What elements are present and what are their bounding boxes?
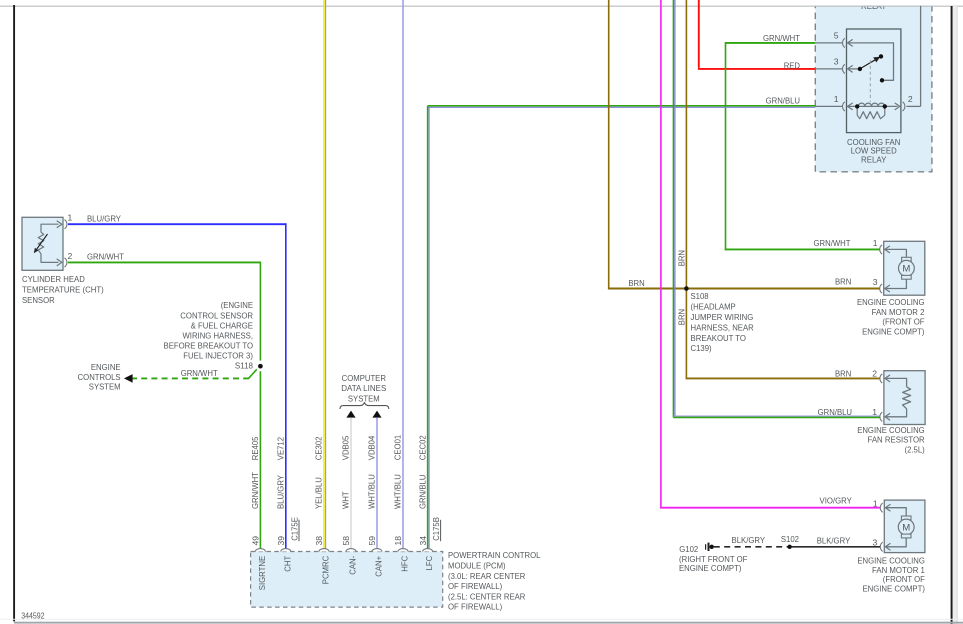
PCM pin 38 PCMRC [319, 549, 329, 552]
brace [340, 402, 389, 409]
svg-text:GRN/BLU: GRN/BLU [818, 407, 852, 417]
svg-text:VDB04: VDB04 [367, 436, 377, 461]
CHT sensor box [22, 217, 63, 270]
svg-text:WIRING HARNESS,: WIRING HARNESS, [183, 331, 254, 341]
svg-text:ENGINE COMPT): ENGINE COMPT) [863, 584, 926, 594]
PCM pin 49 SIGRTNE [255, 549, 265, 552]
svg-text:CYLINDER HEAD: CYLINDER HEAD [22, 274, 85, 284]
ground G102 symbol [705, 544, 707, 549]
svg-text:C175B: C175B [431, 517, 441, 541]
wire YEL/BLU CE302 [323, 0, 325, 548]
svg-text:RED: RED [784, 60, 800, 70]
svg-text:LFC: LFC [424, 556, 434, 571]
svg-text:34: 34 [418, 536, 428, 546]
svg-text:SYSTEM: SYSTEM [348, 393, 380, 403]
relay coil and resistor [848, 105, 898, 107]
white mask above page border [0, 0, 963, 6]
page top border [0, 5, 963, 7]
svg-text:GRN/WHT: GRN/WHT [87, 252, 125, 262]
svg-text:VE712: VE712 [276, 437, 286, 460]
PCM pin 58 CAN- [346, 549, 356, 552]
fan resistor pin 1 [880, 412, 882, 421]
svg-text:VDB05: VDB05 [341, 436, 351, 461]
svg-text:RE405: RE405 [250, 436, 260, 460]
svg-text:& FUEL CHARGE: & FUEL CHARGE [191, 320, 254, 330]
PCM pin 39 CHT [281, 549, 291, 552]
svg-text:1: 1 [68, 213, 73, 223]
arrow up CAN+ [372, 411, 381, 418]
motor M2 symbol [885, 249, 906, 257]
svg-text:(HEADLAMP: (HEADLAMP [691, 302, 736, 312]
relay switch blade [862, 58, 878, 68]
svg-text:S102: S102 [781, 534, 799, 544]
fan motor 2 pin 3 [880, 284, 882, 293]
svg-text:39: 39 [276, 536, 286, 546]
wire GRN/BLU to resistor pin 1 [672, 0, 674, 417]
svg-text:C139): C139) [691, 343, 712, 353]
fan motor 2 box [884, 241, 925, 295]
svg-text:ENGINE COOLING: ENGINE COOLING [857, 425, 925, 435]
svg-text:TEMPERATURE (CHT): TEMPERATURE (CHT) [22, 285, 104, 295]
svg-text:S118: S118 [235, 360, 253, 370]
svg-text:CHT: CHT [282, 555, 292, 572]
svg-text:(ENGINE: (ENGINE [221, 300, 254, 310]
svg-text:SENSOR: SENSOR [22, 295, 55, 305]
svg-text:1: 1 [873, 498, 878, 508]
fan motor 1 pin 1 [880, 503, 882, 512]
CHT pin 1 [65, 220, 67, 229]
svg-text:BLU/GRY: BLU/GRY [276, 475, 286, 509]
svg-text:DATA LINES: DATA LINES [341, 383, 386, 393]
splice S108 dot [684, 286, 689, 291]
svg-text:GRN/WHT: GRN/WHT [814, 238, 852, 248]
svg-text:CEC02: CEC02 [417, 435, 427, 460]
relay actuator dashed link [869, 60, 871, 102]
svg-text:BRN: BRN [835, 276, 851, 286]
motor M1 symbol [886, 508, 907, 516]
svg-text:BREAKOUT TO: BREAKOUT TO [691, 333, 747, 343]
svg-text:344592: 344592 [21, 612, 44, 621]
svg-text:HARNESS, NEAR: HARNESS, NEAR [691, 322, 754, 332]
svg-text:SYSTEM: SYSTEM [89, 382, 121, 392]
thermistor inside CHT sensor [41, 224, 59, 232]
svg-text:GRN/WHT: GRN/WHT [763, 33, 801, 43]
PCM pin 34 LFC [423, 549, 433, 552]
svg-text:JUMPER WIRING: JUMPER WIRING [691, 312, 754, 322]
svg-text:GRN/BLU: GRN/BLU [766, 96, 800, 106]
svg-text:BLK/GRY: BLK/GRY [732, 535, 766, 545]
svg-text:HFC: HFC [400, 556, 410, 572]
relay pin 1 [815, 105, 843, 107]
svg-text:38: 38 [314, 536, 324, 546]
svg-text:C175E: C175E [289, 517, 299, 541]
svg-text:(2.5L: CENTER REAR: (2.5L: CENTER REAR [448, 591, 525, 601]
fan motor 1 box [884, 500, 925, 552]
page right border [951, 6, 953, 624]
svg-text:CE302: CE302 [314, 436, 324, 460]
dashed GRN/WHT branch to engine controls [131, 377, 249, 379]
wire GRN/WHT RE405 [68, 261, 261, 263]
wire GRN/WHT relay pin5 to fan motor 2 [726, 42, 816, 44]
svg-text:BRN: BRN [676, 309, 686, 325]
wire WHT/BLU CEO01 [402, 0, 404, 548]
svg-text:VIO/GRY: VIO/GRY [820, 495, 853, 505]
svg-text:POWERTRAIN CONTROL: POWERTRAIN CONTROL [448, 550, 541, 560]
svg-text:BLK/GRY: BLK/GRY [817, 535, 851, 545]
svg-text:CONTROLS: CONTROLS [78, 372, 121, 382]
svg-text:1: 1 [872, 407, 877, 417]
splice S102 dot [787, 545, 791, 549]
svg-text:OF FIREWALL): OF FIREWALL) [448, 602, 502, 612]
fan motor 1 pin 3 [880, 542, 882, 551]
svg-text:18: 18 [393, 536, 403, 546]
ground G102 dot [710, 545, 714, 549]
wire BRN S108 to resistor pin 2 [686, 377, 880, 379]
relay pin 5 [815, 42, 843, 44]
wire BRN S108 to fan motor 2 pin 3 [686, 288, 880, 290]
svg-text:BRN: BRN [628, 278, 644, 288]
svg-text:FAN MOTOR 2: FAN MOTOR 2 [872, 307, 925, 317]
PCM pin 59 CAN+ [372, 549, 382, 552]
svg-text:2: 2 [908, 94, 913, 104]
wire WHT VDB05 [350, 418, 352, 549]
wire WHT/BLU VDB04 [376, 418, 378, 549]
svg-text:WHT/BLU: WHT/BLU [393, 474, 403, 509]
svg-text:2: 2 [872, 368, 877, 378]
svg-text:CEO01: CEO01 [393, 435, 403, 461]
svg-text:FAN RESISTOR: FAN RESISTOR [868, 435, 925, 445]
page left border [13, 5, 15, 621]
svg-text:G102: G102 [679, 544, 698, 554]
svg-text:1: 1 [873, 238, 878, 248]
fan resistor pin 2 [880, 374, 882, 383]
wire VIO/GRY to motor1 pin 1 [660, 0, 662, 508]
relay pin 3 [815, 68, 843, 70]
svg-text:CAN-: CAN- [348, 556, 358, 575]
wire GRN/BLU CEC02 relay pin1 to PCM 34 [428, 105, 816, 107]
svg-text:ENGINE COOLING: ENGINE COOLING [857, 297, 925, 307]
svg-text:CONTROL SENSOR: CONTROL SENSOR [180, 310, 253, 320]
svg-text:FUEL INJECTOR 3): FUEL INJECTOR 3) [183, 351, 253, 361]
resistor element [885, 378, 906, 387]
svg-text:ENGINE COMPT): ENGINE COMPT) [862, 326, 925, 336]
wire BLK/GRY dashed G102 to S102 [714, 546, 790, 548]
svg-text:3: 3 [834, 57, 839, 67]
svg-text:BRN: BRN [676, 250, 686, 266]
relay pin 2 [903, 102, 905, 111]
svg-text:BRN: BRN [835, 368, 851, 378]
relay common from pin 3 [848, 68, 859, 70]
svg-text:OF FIREWALL): OF FIREWALL) [448, 581, 502, 591]
svg-text:PCMRC: PCMRC [321, 556, 331, 584]
svg-text:M: M [902, 522, 910, 533]
svg-text:GRN/WHT: GRN/WHT [181, 368, 219, 378]
svg-text:ENGINE COMPT): ENGINE COMPT) [679, 563, 742, 573]
relay inner box [847, 29, 901, 133]
svg-text:BLU/GRY: BLU/GRY [87, 213, 121, 223]
wire BLK/GRY S102 to motor1 pin 3 [790, 546, 880, 548]
svg-text:(2.5L): (2.5L) [905, 444, 925, 454]
wire BLU/GRY VE712 [68, 223, 286, 225]
PCM pin 18 HFC [398, 549, 408, 552]
fan resistor box [884, 371, 925, 425]
svg-text:5: 5 [834, 31, 839, 41]
svg-text:59: 59 [367, 536, 377, 546]
wire BRN vertical through S108 [685, 0, 687, 378]
svg-text:CAN+: CAN+ [374, 556, 384, 577]
arrow up CAN- [346, 411, 355, 418]
page right inner border [953, 6, 957, 624]
svg-text:MODULE (PCM): MODULE (PCM) [448, 561, 506, 571]
svg-text:BEFORE BREAKOUT TO: BEFORE BREAKOUT TO [164, 341, 254, 351]
svg-text:(FRONT OF: (FRONT OF [882, 317, 924, 327]
splice S118 dot [258, 364, 263, 369]
svg-text:M: M [902, 264, 910, 275]
cooling fan low speed relay dashed box [815, 0, 932, 172]
PCM dashed box [251, 552, 443, 608]
svg-text:WHT/BLU: WHT/BLU [367, 474, 377, 509]
svg-text:YEL/BLU: YEL/BLU [314, 477, 324, 509]
svg-text:GRN/WHT: GRN/WHT [250, 471, 260, 509]
wire BRN from top left [608, 0, 610, 289]
CHT pin 2 [65, 258, 67, 267]
svg-text:COMPUTER: COMPUTER [342, 373, 386, 383]
relay contact from pin 5 [848, 43, 894, 80]
svg-text:S108: S108 [691, 291, 709, 301]
svg-text:1: 1 [834, 94, 839, 104]
svg-text:58: 58 [341, 536, 351, 546]
svg-text:GRN/BLU: GRN/BLU [417, 475, 427, 509]
svg-text:RELAY: RELAY [861, 154, 887, 164]
svg-text:SIGRTNE: SIGRTNE [257, 556, 267, 591]
page bottom border [0, 618, 963, 620]
svg-text:3: 3 [873, 277, 878, 287]
wire RED to relay pin 3 [698, 0, 700, 68]
svg-text:ENGINE: ENGINE [91, 362, 121, 372]
svg-text:49: 49 [251, 536, 261, 546]
svg-text:WHT: WHT [341, 491, 351, 509]
svg-text:2: 2 [68, 251, 73, 261]
fan motor 2 pin 1 [880, 245, 882, 254]
svg-text:(3.0L: REAR CENTER: (3.0L: REAR CENTER [448, 571, 525, 581]
